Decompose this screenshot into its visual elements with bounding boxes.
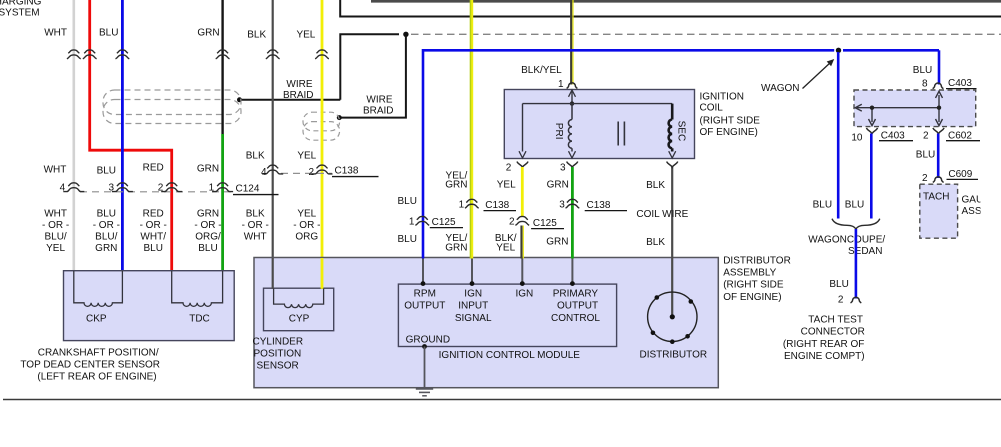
ground symbol — [416, 389, 433, 396]
svg-text:SENSOR: SENSOR — [257, 360, 299, 371]
svg-text:YEL: YEL — [497, 180, 516, 191]
svg-text:2: 2 — [923, 130, 929, 141]
connector box C403/C602 — [854, 90, 976, 127]
brace merge of wagon/coupe wires — [832, 219, 880, 230]
svg-text:3: 3 — [560, 162, 566, 173]
wire BLU pin10 down to brace — [870, 134, 873, 219]
svg-text:3: 3 — [559, 199, 565, 210]
wire YEL vertical — [321, 0, 324, 302]
svg-text:BLK: BLK — [646, 237, 665, 248]
TDC pickup coil cup — [172, 271, 223, 306]
tach test female cap — [851, 297, 862, 303]
svg-text:WHT/: WHT/ — [140, 232, 166, 243]
svg-text:SIGNAL: SIGNAL — [455, 313, 492, 324]
svg-text:10: 10 — [851, 132, 863, 143]
svg-text:GRN: GRN — [95, 243, 117, 254]
dashed gray net line to right — [411, 33, 1001, 35]
svg-text:CONTROL: CONTROL — [551, 313, 600, 324]
svg-text:BLK: BLK — [247, 30, 266, 41]
svg-text:CHARGING: CHARGING — [0, 0, 42, 7]
svg-text:COIL: COIL — [700, 102, 724, 113]
distributor center node — [670, 314, 675, 319]
wire BLU rpm output riser — [423, 50, 834, 258]
coil left branch with down arrow (pin 2) — [522, 104, 524, 152]
svg-text:2: 2 — [922, 173, 928, 184]
wire BLK stub into CYP — [272, 258, 274, 289]
svg-text:CYP: CYP — [289, 314, 310, 325]
svg-text:(RIGHT REAR OF: (RIGHT REAR OF — [783, 339, 864, 350]
top bus line A (dark gray) — [371, 0, 1001, 3]
svg-text:1: 1 — [459, 199, 465, 210]
distributor circle — [648, 292, 697, 341]
svg-text:GRN: GRN — [197, 28, 219, 39]
svg-text:(RIGHT SIDE: (RIGHT SIDE — [723, 280, 784, 291]
svg-text:- OR -: - OR - — [194, 220, 221, 231]
svg-text:YEL: YEL — [297, 209, 316, 220]
svg-text:OUTPUT: OUTPUT — [404, 300, 445, 311]
CYP pickup coil cup — [274, 289, 324, 308]
svg-text:RED: RED — [143, 163, 164, 174]
svg-text:POSITION: POSITION — [254, 348, 302, 359]
svg-text:CONNECTOR: CONNECTOR — [801, 327, 865, 338]
wire BLU wagon drop — [837, 52, 840, 219]
TACH box — [920, 184, 958, 238]
svg-text:GRN: GRN — [547, 180, 569, 191]
svg-text:C138: C138 — [587, 200, 611, 211]
svg-text:BLU: BLU — [916, 150, 935, 161]
wire BLU single to tach test — [855, 229, 858, 299]
svg-text:BRAID: BRAID — [363, 106, 394, 117]
svg-text:C138: C138 — [485, 200, 509, 211]
break symbols on six wires — [67, 50, 329, 59]
svg-text:COIL WIRE: COIL WIRE — [636, 209, 688, 220]
svg-text:RED: RED — [143, 209, 164, 220]
svg-text:- OR -: - OR - — [42, 220, 69, 231]
primary winding PRI — [568, 104, 572, 152]
svg-text:IGNITION CONTROL MODULE: IGNITION CONTROL MODULE — [439, 350, 581, 361]
svg-text:BLK: BLK — [246, 150, 265, 161]
C609 female cap — [933, 177, 944, 183]
svg-text:OF ENGINE): OF ENGINE) — [723, 292, 781, 303]
svg-text:GRN: GRN — [445, 180, 467, 191]
svg-text:OUTPUT: OUTPUT — [557, 300, 598, 311]
svg-text:BLK: BLK — [646, 180, 665, 191]
svg-text:3: 3 — [108, 183, 114, 194]
wire YEL stub into CYP — [321, 258, 324, 289]
svg-text:WIRE: WIRE — [366, 94, 392, 105]
svg-text:CYLINDER: CYLINDER — [253, 336, 304, 347]
svg-text:WAGONCOUPE/: WAGONCOUPE/ — [808, 235, 885, 246]
svg-text:BLU: BLU — [99, 28, 118, 39]
ICM inner box — [398, 284, 616, 346]
svg-text:- OR -: - OR - — [93, 220, 120, 231]
svg-text:WHT: WHT — [44, 209, 67, 220]
svg-text:BLU/: BLU/ — [95, 232, 117, 243]
svg-text:ORG: ORG — [295, 232, 318, 243]
node: braid 1 dot — [237, 97, 242, 102]
wagon arrow — [803, 62, 832, 89]
pin 8 female cap — [933, 83, 944, 89]
svg-text:4: 4 — [261, 167, 267, 178]
svg-text:TDC: TDC — [189, 314, 210, 325]
svg-text:C125: C125 — [432, 217, 456, 228]
CYP sensor box — [264, 288, 334, 331]
ground node dot — [422, 344, 427, 349]
svg-text:C138: C138 — [335, 166, 359, 177]
svg-text:ENGINE COMPT): ENGINE COMPT) — [784, 351, 865, 362]
ignition coil box — [504, 90, 694, 159]
svg-text:BLU: BLU — [97, 209, 116, 220]
svg-text:BRAID: BRAID — [283, 90, 314, 101]
svg-text:DISTRIBUTOR: DISTRIBUTOR — [639, 350, 707, 361]
svg-text:YEL: YEL — [297, 150, 316, 161]
wire braid 2 shield (dashed cylinder) — [303, 112, 340, 140]
svg-text:WAGON: WAGON — [761, 83, 800, 94]
svg-text:IGN: IGN — [464, 288, 482, 299]
svg-text:GROUND: GROUND — [406, 334, 450, 345]
svg-text:TOP DEAD CENTER SENSOR: TOP DEAD CENTER SENSOR — [20, 359, 160, 370]
node: braid 2 dot — [337, 115, 342, 120]
svg-text:C403: C403 — [881, 130, 905, 141]
svg-text:TACH TEST: TACH TEST — [808, 315, 863, 326]
coil internal: pin1 drop with up arrow — [571, 91, 573, 104]
svg-text:1: 1 — [558, 79, 564, 90]
svg-text:SEC: SEC — [676, 121, 687, 142]
wire BLU vertical — [121, 0, 124, 272]
svg-text:IGNITION: IGNITION — [700, 91, 744, 102]
svg-text:INPUT: INPUT — [458, 300, 488, 311]
wire BLU pin2 down to C609 — [937, 134, 940, 179]
pin 10 cap — [866, 128, 877, 134]
top bus line B black corner — [340, 0, 1001, 17]
svg-text:WHT: WHT — [44, 164, 67, 175]
svg-text:1: 1 — [409, 216, 415, 227]
svg-text:YEL: YEL — [296, 30, 315, 41]
coil internal node — [570, 101, 574, 105]
svg-text:GRN: GRN — [197, 209, 219, 220]
svg-text:ORG/: ORG/ — [195, 232, 221, 243]
wire: junction down to braid 2 — [341, 36, 406, 118]
svg-text:C403: C403 — [948, 78, 972, 89]
CKP pickup coil cup — [74, 271, 123, 306]
svg-text:BLU: BLU — [143, 243, 162, 254]
svg-text:- OR -: - OR - — [293, 220, 320, 231]
pin 2 cap (C602) — [933, 128, 944, 134]
svg-text:GRN: GRN — [546, 237, 568, 248]
svg-text:C602: C602 — [948, 130, 972, 141]
left OR label column 1 — [42, 209, 320, 255]
svg-text:- OR -: - OR - — [140, 220, 167, 231]
svg-text:CRANKSHAFT POSITION/: CRANKSHAFT POSITION/ — [38, 347, 159, 358]
wire BLK/YEL below C125 into module — [522, 226, 524, 259]
assembly big box — [254, 258, 718, 388]
wire YEL coil pin2 to C125 — [521, 167, 524, 216]
svg-text:BLU/: BLU/ — [44, 232, 66, 243]
svg-text:GRN: GRN — [445, 243, 467, 254]
ICM labels — [404, 288, 600, 324]
distributor coil wire (from ignition coil) — [671, 167, 673, 317]
svg-text:SEDAN: SEDAN — [848, 246, 882, 257]
wire GRN coil pin3 down — [571, 167, 574, 259]
svg-text:4: 4 — [60, 183, 66, 194]
connector box internal bus — [855, 91, 942, 125]
svg-text:WHT: WHT — [44, 28, 67, 39]
svg-text:2: 2 — [308, 167, 314, 178]
node: wagon tap junction — [836, 48, 841, 53]
coil pin 1 female cap — [567, 83, 578, 89]
connector C124 row — [80, 191, 232, 193]
svg-text:C125: C125 — [533, 218, 557, 229]
wire braid 1 shield (dashed stadium) — [103, 90, 241, 124]
svg-text:BLU: BLU — [845, 199, 864, 210]
coil internal bus — [523, 103, 673, 105]
svg-text:IGN: IGN — [516, 288, 534, 299]
coil sec pin cap — [667, 162, 678, 168]
svg-text:BLU: BLU — [913, 65, 932, 76]
svg-text:(LEFT REAR OF ENGINE): (LEFT REAR OF ENGINE) — [37, 371, 156, 382]
svg-text:8: 8 — [922, 79, 928, 90]
svg-text:2: 2 — [158, 183, 164, 194]
svg-text:PRIMARY: PRIMARY — [553, 288, 599, 299]
svg-text:2: 2 — [838, 295, 844, 306]
svg-text:YEL: YEL — [46, 243, 65, 254]
svg-text:GRN: GRN — [197, 163, 219, 174]
secondary winding SEC — [669, 104, 673, 152]
CKP/TDC sensor box — [64, 271, 235, 341]
core bars — [617, 122, 619, 146]
wire: black shield bus corner to junction — [340, 34, 399, 100]
svg-text:(RIGHT SIDE: (RIGHT SIDE — [700, 115, 761, 126]
wire: shield bus to braid 1 — [240, 99, 340, 101]
svg-text:BLK/YEL: BLK/YEL — [521, 65, 562, 76]
wire YEL/GRN vertical — [471, 0, 472, 259]
white crop mask over gauge text — [981, 188, 1001, 220]
svg-text:- OR -: - OR - — [242, 220, 269, 231]
svg-text:RPM: RPM — [414, 288, 436, 299]
svg-text:SYSTEM: SYSTEM — [0, 7, 40, 18]
svg-text:YEL: YEL — [496, 243, 515, 254]
svg-text:WHT: WHT — [244, 232, 267, 243]
svg-text:2: 2 — [509, 216, 515, 227]
wire RED with jog — [90, 0, 172, 272]
svg-text:DISTRIBUTOR: DISTRIBUTOR — [723, 255, 791, 266]
wire WHT vertical — [73, 0, 76, 272]
svg-text:2: 2 — [506, 162, 512, 173]
svg-text:ASSEMBLY: ASSEMBLY — [723, 268, 776, 279]
ICM pin nodes — [421, 281, 575, 286]
svg-text:1: 1 — [209, 183, 215, 194]
svg-text:BLU: BLU — [397, 234, 416, 245]
svg-text:C609: C609 — [948, 169, 972, 180]
svg-text:OF ENGINE): OF ENGINE) — [700, 127, 758, 138]
svg-text:BLU: BLU — [397, 196, 416, 207]
svg-text:BLK: BLK — [246, 209, 265, 220]
wire BLK/YEL to coil pin 1 — [571, 0, 573, 85]
svg-text:TACH: TACH — [923, 192, 949, 203]
svg-text:BLU: BLU — [198, 243, 217, 254]
svg-text:BLU: BLU — [829, 279, 848, 290]
svg-text:CKP: CKP — [86, 314, 107, 325]
ground wire — [424, 347, 426, 389]
distributor cap terminals — [651, 295, 693, 344]
wire BLK vertical — [272, 0, 274, 302]
svg-text:C124: C124 — [236, 184, 260, 195]
svg-text:BLU: BLU — [97, 165, 116, 176]
connector C138 upper row (BLK/YEL) — [281, 172, 332, 174]
connector box nodes — [870, 106, 874, 110]
svg-text:WIRE: WIRE — [286, 79, 312, 90]
svg-text:BLU: BLU — [813, 199, 832, 210]
wire GRN vertical (black above braid) — [221, 0, 223, 134]
node: black junction dot — [403, 32, 408, 37]
bottom border rule — [3, 399, 1001, 401]
ICM input stub wires (gray) — [423, 259, 572, 284]
svg-text:PRI: PRI — [553, 123, 564, 140]
wire BLU down to C403 pin 8 — [938, 50, 941, 84]
